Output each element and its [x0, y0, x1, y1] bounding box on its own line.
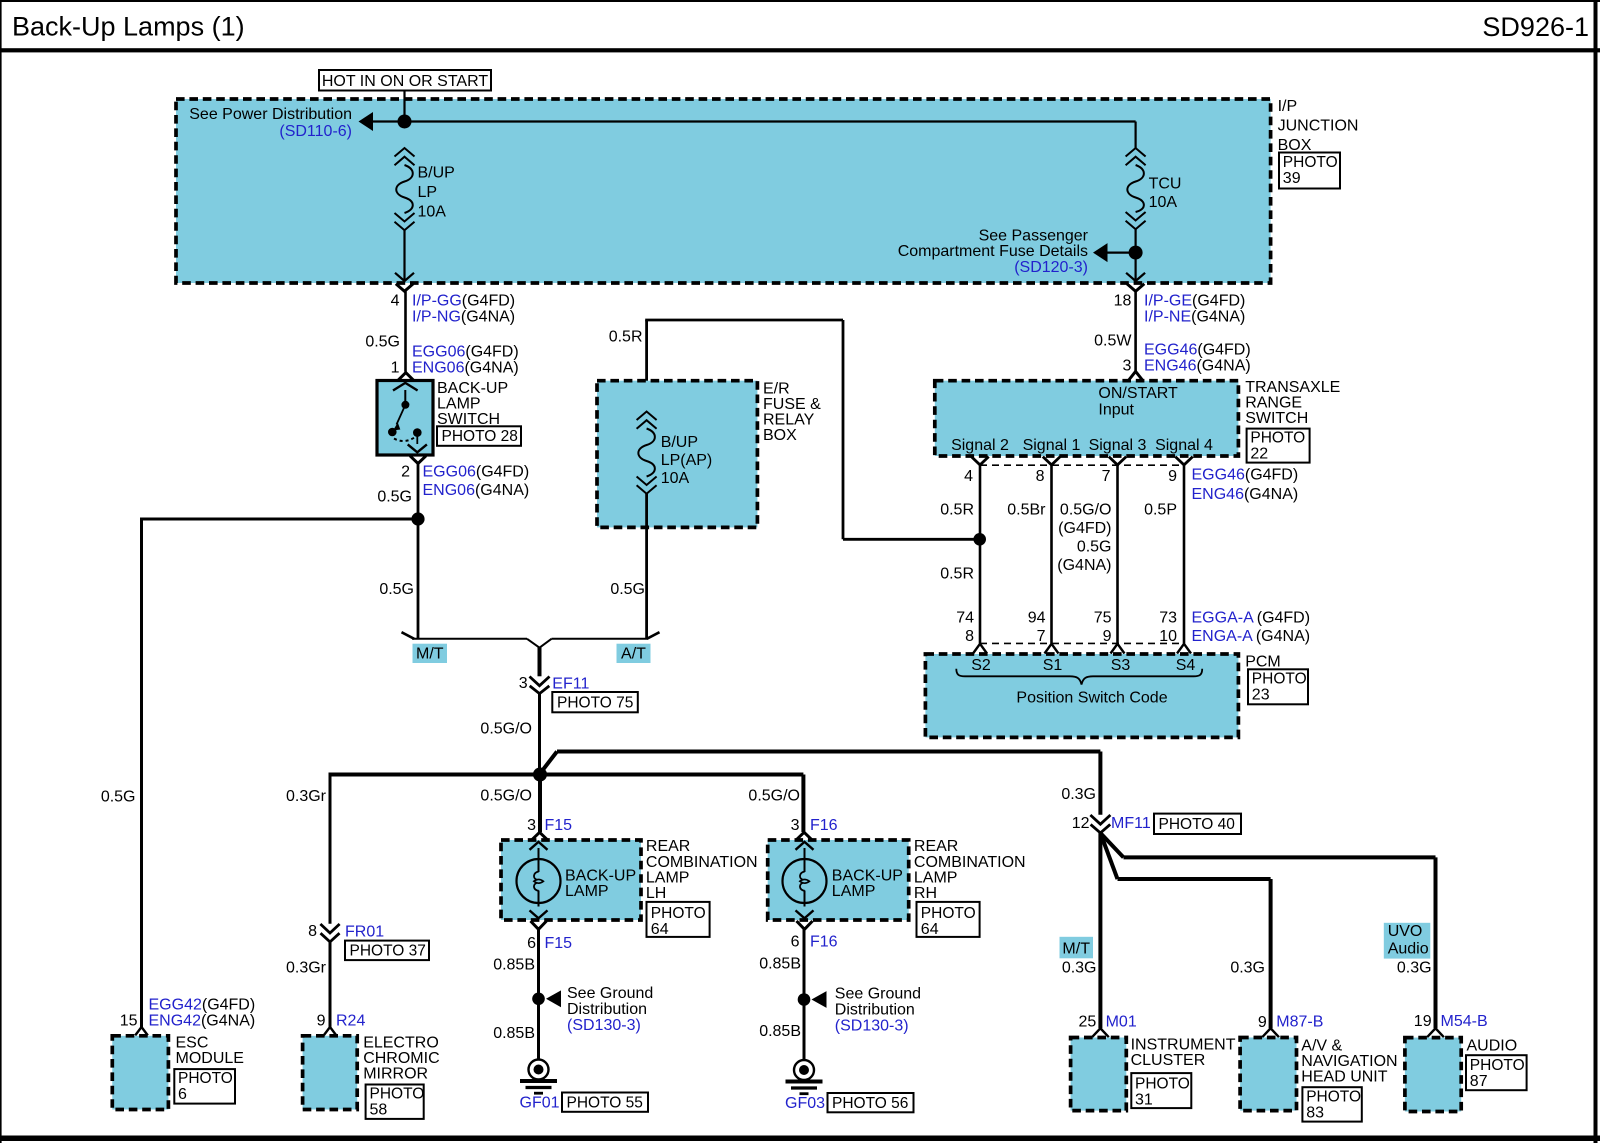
- wire: bus to A/V corner: [1118, 877, 1271, 881]
- pin 9 / connector name M87-B: [1258, 1014, 1324, 1032]
- svg-text:0.5G: 0.5G: [1077, 539, 1112, 556]
- photo ref box: PHOTO 87: [1466, 1055, 1527, 1090]
- svg-text:BACK-UP: BACK-UP: [565, 868, 636, 885]
- wire: diagonal to audio bus: [1100, 833, 1123, 857]
- svg-text:1: 1: [391, 360, 400, 377]
- svg-text:AUDIO: AUDIO: [1467, 1038, 1518, 1055]
- rear combination lamp RH box: [768, 840, 909, 920]
- svg-text:BOX: BOX: [1278, 137, 1312, 154]
- pin 15 / wire labels EGG42 ENG42: [120, 997, 256, 1030]
- svg-text:EF11: EF11: [552, 675, 589, 692]
- svg-text:I/P-GE(G4FD): I/P-GE(G4FD): [1144, 292, 1245, 309]
- svg-text:87: 87: [1470, 1073, 1488, 1090]
- svg-text:PHOTO 28: PHOTO 28: [442, 428, 518, 445]
- svg-text:LAMP: LAMP: [437, 396, 481, 413]
- svg-text:10A: 10A: [661, 470, 690, 487]
- svg-text:F16: F16: [810, 817, 838, 834]
- photo ref box: PHOTO 83: [1302, 1087, 1361, 1121]
- svg-text:EGG46(G4FD): EGG46(G4FD): [1144, 342, 1251, 359]
- svg-text:PCM: PCM: [1245, 654, 1281, 671]
- svg-text:M01: M01: [1106, 1014, 1137, 1031]
- photo ref box: PHOTO 28: [437, 426, 521, 446]
- connector fork into instrument cluster: [1092, 1028, 1109, 1037]
- pin 19 / connector name M54-B: [1414, 1013, 1488, 1030]
- svg-text:LP: LP: [418, 184, 438, 201]
- photo ref box: PHOTO 64 (RH): [917, 902, 980, 938]
- svg-text:3: 3: [1122, 358, 1131, 375]
- svg-text:SWITCH: SWITCH: [1245, 410, 1308, 427]
- pin 1 / wire labels EGG06 ENG06: [391, 344, 519, 377]
- svg-text:23: 23: [1252, 687, 1270, 704]
- connector fork into electro chromic mirror: [324, 1027, 337, 1035]
- svg-text:94: 94: [1028, 610, 1046, 627]
- svg-text:ENG46(G4NA): ENG46(G4NA): [1192, 486, 1299, 503]
- arrow: see ground distribution RH (points left): [812, 991, 827, 1008]
- svg-text:Back-Up Lamps (1): Back-Up Lamps (1): [12, 12, 245, 42]
- svg-text:0.5G/O: 0.5G/O: [1060, 502, 1112, 519]
- svg-text:Signal 1: Signal 1: [1023, 437, 1081, 454]
- svg-text:A/V &: A/V &: [1301, 1038, 1342, 1055]
- svg-text:0.5R: 0.5R: [609, 329, 643, 346]
- svg-text:I/P-NG(G4NA): I/P-NG(G4NA): [412, 309, 515, 326]
- wire labels EGGA-A ENGA-A: [1192, 610, 1311, 646]
- wire: I/P box to back-up lamp switch: [404, 291, 407, 372]
- wire: MF11 to instrument cluster: [1098, 833, 1102, 1028]
- svg-text:Distribution: Distribution: [835, 1002, 915, 1019]
- note: See Ground Distribution (SD130-3) RH: [835, 986, 921, 1035]
- svg-text:Signal 4: Signal 4: [1155, 437, 1213, 454]
- svg-text:Input: Input: [1098, 402, 1134, 419]
- svg-text:0.5G/O: 0.5G/O: [480, 788, 532, 805]
- svg-text:4: 4: [964, 468, 973, 485]
- svg-text:0.5G/O: 0.5G/O: [748, 788, 800, 805]
- junction dot: B+ feed node: [398, 115, 412, 129]
- svg-text:LP(AP): LP(AP): [661, 452, 713, 469]
- svg-text:0.85B: 0.85B: [759, 1023, 801, 1040]
- back-up lamp RH (bulb symbol): [783, 842, 827, 918]
- svg-text:PHOTO 37: PHOTO 37: [350, 943, 426, 960]
- svg-text:See Ground: See Ground: [567, 985, 653, 1002]
- svg-text:REAR: REAR: [646, 838, 690, 855]
- value label: B/UP LP(AP) 10A: [661, 434, 713, 487]
- svg-text:7: 7: [1102, 468, 1111, 485]
- inline connector EF11 pin 3: [530, 677, 550, 694]
- svg-text:ENG42(G4NA): ENG42(G4NA): [149, 1013, 256, 1030]
- svg-text:0.5G/O: 0.5G/O: [480, 721, 532, 738]
- pin 3 / connector name F16: [791, 817, 838, 834]
- value label: TCU 10A: [1149, 176, 1182, 212]
- svg-text:(SD130-3): (SD130-3): [835, 1018, 909, 1035]
- I/P junction box (fuse box): [176, 99, 1271, 283]
- svg-text:75: 75: [1094, 610, 1112, 627]
- svg-text:(SD120-3): (SD120-3): [1014, 259, 1088, 276]
- note: See Ground Distribution (SD130-3) LH: [567, 985, 653, 1034]
- value label: B/UP LP 10A: [418, 165, 455, 221]
- svg-text:64: 64: [651, 921, 669, 938]
- label: Signal 2 Signal 1 Signal 3 Signal 4: [951, 437, 1213, 454]
- pin 6 / connector name F16: [791, 934, 838, 951]
- svg-text:3: 3: [527, 817, 536, 834]
- node: HOT IN ON OR START: [319, 70, 491, 91]
- svg-text:PHOTO: PHOTO: [1252, 671, 1307, 688]
- svg-text:E/R: E/R: [763, 380, 790, 397]
- svg-text:FUSE &: FUSE &: [763, 396, 821, 413]
- svg-text:Compartment Fuse Details: Compartment Fuse Details: [898, 243, 1088, 260]
- arrow: see power distribution (points left): [359, 112, 374, 131]
- svg-text:I/P: I/P: [1278, 98, 1298, 115]
- svg-text:PHOTO 56: PHOTO 56: [832, 1095, 908, 1112]
- E/R fuse and relay box: [597, 381, 757, 528]
- svg-text:M/T: M/T: [416, 645, 444, 662]
- svg-text:M54-B: M54-B: [1441, 1013, 1488, 1030]
- wire: E/R feed horizontal to transaxle branch: [645, 319, 843, 322]
- svg-text:ENGA-A(G4NA): ENGA-A(G4NA): [1192, 628, 1311, 645]
- svg-text:0.3Gr: 0.3Gr: [286, 788, 327, 805]
- wire: vertical down to signal 2 node: [842, 320, 845, 539]
- svg-text:10A: 10A: [1149, 194, 1178, 211]
- pin 3 / connector name EF11: [519, 675, 590, 692]
- svg-text:B/UP: B/UP: [661, 434, 698, 451]
- svg-text:ENG06(G4NA): ENG06(G4NA): [412, 360, 519, 377]
- svg-text:CLUSTER: CLUSTER: [1131, 1052, 1206, 1069]
- connector half above rear combination lamp LH: [532, 832, 548, 840]
- svg-text:6: 6: [527, 935, 536, 952]
- label: E/R FUSE & RELAY BOX: [763, 380, 821, 444]
- A/V and navigation head unit box: [1240, 1038, 1296, 1111]
- svg-text:0.5G: 0.5G: [610, 581, 645, 598]
- svg-text:10A: 10A: [418, 204, 447, 221]
- pin 8 / connector name FR01: [308, 923, 384, 941]
- pin numbers 74/8 94/7 75/9 73/10: [956, 610, 1177, 646]
- svg-text:PHOTO: PHOTO: [1250, 430, 1305, 447]
- photo ref box: PHOTO 6: [174, 1069, 235, 1104]
- svg-text:PHOTO 55: PHOTO 55: [567, 1094, 643, 1111]
- wire: lamp LH to ground GF01: [537, 929, 540, 1060]
- option tag: M/T: [413, 644, 448, 663]
- label: BACK-UP LAMP (LH): [565, 868, 636, 901]
- svg-text:NAVIGATION: NAVIGATION: [1301, 1053, 1397, 1070]
- svg-text:Audio: Audio: [1388, 940, 1429, 957]
- option tag: M/T (instrument cluster): [1060, 937, 1094, 959]
- svg-text:SD926-1: SD926-1: [1482, 12, 1589, 42]
- svg-text:GF03: GF03: [785, 1095, 825, 1112]
- svg-text:(G4FD): (G4FD): [1058, 520, 1111, 537]
- junction dot: LH ground note node: [532, 993, 545, 1006]
- label: ELECTRO CHROMIC MIRROR: [363, 1034, 439, 1082]
- wire labels EGG46 ENG46: [1192, 467, 1299, 504]
- svg-text:18: 18: [1114, 292, 1132, 309]
- M/T - A/T merge symbol: [402, 632, 660, 648]
- pin 18 / wire labels I/P-GE I/P-NE: [1114, 292, 1246, 325]
- svg-text:EGGA-A(G4FD): EGGA-A(G4FD): [1192, 610, 1311, 627]
- svg-text:0.5W: 0.5W: [1094, 333, 1132, 350]
- svg-text:0.5G: 0.5G: [101, 789, 136, 806]
- junction dot: distribution node: [533, 768, 547, 782]
- wire: merge to EF11 connector: [538, 647, 542, 676]
- wire: switch to M/T merge: [417, 464, 420, 640]
- rear combination lamp LH box: [501, 840, 641, 920]
- connector half above rear combination lamp RH: [796, 832, 812, 840]
- svg-text:3: 3: [791, 817, 800, 834]
- svg-text:0.85B: 0.85B: [493, 1025, 535, 1042]
- svg-text:9: 9: [1103, 628, 1112, 645]
- pin 6 / connector name F15: [527, 935, 572, 952]
- connector half below rear combination lamp RH: [797, 921, 813, 929]
- svg-text:22: 22: [1250, 446, 1268, 463]
- svg-text:TCU: TCU: [1149, 176, 1182, 193]
- svg-text:EGG46(G4FD): EGG46(G4FD): [1192, 467, 1299, 484]
- svg-text:83: 83: [1306, 1105, 1324, 1122]
- PCM box: [925, 654, 1238, 737]
- svg-text:39: 39: [1283, 170, 1301, 187]
- inline connector FR01 pin 8: [320, 924, 339, 942]
- pin 3 / connector name F15: [527, 817, 572, 834]
- svg-text:ESC: ESC: [176, 1034, 209, 1051]
- wire labels: 0.5R 0.5Br 0.5G/O (G4FD) 0.5G (G4NA) 0.5P: [940, 502, 1177, 575]
- svg-text:RELAY: RELAY: [763, 411, 815, 428]
- svg-text:25: 25: [1079, 1014, 1097, 1031]
- svg-text:4: 4: [391, 292, 400, 309]
- connector half below rear combination lamp LH: [531, 921, 547, 929]
- title separator line: [0, 48, 1600, 52]
- photo ref box: PHOTO 22: [1247, 429, 1310, 463]
- photo ref box: PHOTO 40: [1154, 814, 1241, 834]
- svg-text:BACK-UP: BACK-UP: [437, 380, 508, 397]
- arrow: see ground distribution LH (points left): [546, 990, 561, 1007]
- wire: down to TCU fuse: [1134, 122, 1136, 149]
- wire: horizontal into signal 2 junction dot: [843, 538, 980, 541]
- wire: bus to audio corner: [1124, 855, 1436, 859]
- svg-text:64: 64: [921, 921, 939, 938]
- svg-text:F15: F15: [545, 817, 573, 834]
- svg-text:HOT IN ON OR START: HOT IN ON OR START: [322, 73, 488, 90]
- wire: signal 4: [1183, 465, 1186, 644]
- fuse B/UP LP(AP) 10A: [637, 412, 657, 494]
- pin 25 / connector name M01: [1079, 1014, 1137, 1031]
- connector half (female) below I/P box pin 18: [1127, 284, 1144, 292]
- wire: distribution node down to F15: [538, 775, 542, 833]
- arrowhead at I/P box exit (right): [1126, 273, 1145, 281]
- pin 3 / wire labels EGG46 ENG46: [1122, 342, 1250, 375]
- svg-text:Position Switch Code: Position Switch Code: [1016, 690, 1167, 707]
- pin 12 / connector name MF11: [1072, 815, 1151, 832]
- svg-text:A/T: A/T: [621, 645, 646, 662]
- svg-text:F15: F15: [545, 935, 573, 952]
- svg-text:0.5G: 0.5G: [377, 489, 412, 506]
- connector half below switch pin 2: [410, 456, 426, 464]
- svg-text:0.85B: 0.85B: [493, 957, 535, 974]
- back-up lamp LH (bulb symbol): [517, 842, 561, 918]
- pin 2 / wire labels EGG06 ENG06: [401, 464, 529, 500]
- connector half above switch pin 1: [398, 373, 414, 381]
- svg-text:(SD130-3): (SD130-3): [567, 1017, 641, 1034]
- svg-text:9: 9: [317, 1013, 326, 1030]
- label: REAR COMBINATION LAMP RH: [914, 838, 1026, 902]
- wire: signal 2: [979, 465, 982, 644]
- svg-text:PHOTO: PHOTO: [370, 1086, 425, 1103]
- svg-text:6: 6: [791, 934, 800, 951]
- svg-text:15: 15: [120, 1013, 138, 1030]
- svg-text:I/P-NE(G4NA): I/P-NE(G4NA): [1144, 309, 1245, 326]
- wire: arrow to TCU junction dot: [1108, 252, 1136, 254]
- svg-text:RH: RH: [914, 885, 937, 902]
- connector forks into PCM (S2 S1 S3 S4): [973, 644, 1191, 654]
- svg-text:31: 31: [1135, 1091, 1153, 1108]
- svg-text:COMBINATION: COMBINATION: [914, 854, 1026, 871]
- label: ESC MODULE: [176, 1034, 244, 1067]
- svg-text:0.5R: 0.5R: [940, 502, 974, 519]
- svg-text:S1: S1: [1043, 657, 1063, 674]
- junction dot: RH ground note node: [798, 993, 811, 1006]
- svg-text:9: 9: [1258, 1014, 1267, 1031]
- arrowhead at I/P box exit (left): [395, 273, 414, 281]
- label: BACK-UP LAMP SWITCH: [437, 380, 508, 428]
- svg-text:8: 8: [308, 923, 317, 940]
- photo ref box: PHOTO 75: [552, 692, 638, 712]
- svg-text:LAMP: LAMP: [646, 869, 690, 886]
- svg-text:0.3G: 0.3G: [1230, 959, 1265, 976]
- svg-text:REAR: REAR: [914, 838, 958, 855]
- photo ref box: PHOTO 64 (LH): [647, 902, 710, 938]
- fuse B/UP LP 10A: [395, 148, 415, 230]
- svg-text:8: 8: [1036, 468, 1045, 485]
- svg-text:EGG42(G4FD): EGG42(G4FD): [149, 997, 256, 1014]
- svg-text:COMBINATION: COMBINATION: [646, 854, 758, 871]
- wire: bus corner down to F16: [801, 775, 805, 833]
- inline connector MF11 pin 12: [1090, 815, 1110, 833]
- fuse TCU 10A: [1126, 148, 1146, 229]
- connector halves below transaxle range switch (S2 S1 S3 S4): [971, 457, 1192, 465]
- junction dot: TCU fuse node: [1129, 246, 1143, 260]
- svg-text:EGG06(G4FD): EGG06(G4FD): [423, 464, 530, 481]
- svg-text:HEAD UNIT: HEAD UNIT: [1301, 1069, 1387, 1086]
- svg-text:12: 12: [1072, 815, 1090, 832]
- svg-text:ENG06(G4NA): ENG06(G4NA): [423, 482, 530, 499]
- label: TRANSAXLE RANGE SWITCH: [1245, 379, 1340, 427]
- connector dashed link line (top): [980, 464, 1184, 466]
- wire: branch down to FR01: [329, 773, 332, 924]
- wire: fuse B/UP LP to I/P box exit: [403, 230, 405, 281]
- wire: bus corner down to MF11: [1098, 752, 1102, 815]
- note: See Passenger Compartment Fuse Details (SD120-3): [898, 228, 1089, 277]
- svg-text:S3: S3: [1111, 657, 1131, 674]
- svg-text:0.3Gr: 0.3Gr: [286, 960, 327, 977]
- label: INSTRUMENT CLUSTER: [1131, 1036, 1236, 1069]
- svg-text:EGG06(G4FD): EGG06(G4FD): [412, 344, 519, 361]
- photo ref box: PHOTO 58: [366, 1085, 425, 1119]
- note: See Power Distribution (SD110-6): [189, 106, 352, 140]
- svg-text:M/T: M/T: [1062, 940, 1090, 957]
- wire: arrow to junction dot: [373, 120, 405, 122]
- connector fork into audio: [1427, 1028, 1444, 1037]
- wire: distribution bus left (to FR01 branch): [330, 773, 540, 777]
- ground symbol GF03: [786, 1060, 823, 1094]
- wire: E/R fuse to A/T merge: [645, 494, 648, 640]
- audio box: [1405, 1038, 1461, 1112]
- wire: signal 3: [1116, 465, 1119, 644]
- wire: transaxle feed below I/P box: [1134, 291, 1137, 371]
- wire: corner down to A/V head unit: [1269, 879, 1273, 1028]
- svg-text:INSTRUMENT: INSTRUMENT: [1131, 1036, 1236, 1053]
- svg-text:PHOTO: PHOTO: [651, 905, 706, 922]
- svg-text:TRANSAXLE: TRANSAXLE: [1245, 379, 1340, 396]
- svg-text:JUNCTION: JUNCTION: [1278, 117, 1359, 134]
- junction dot: signal 2 node: [973, 533, 986, 546]
- svg-text:(G4NA): (G4NA): [1057, 557, 1111, 574]
- svg-text:2: 2: [401, 464, 410, 481]
- svg-text:0.3G: 0.3G: [1061, 786, 1096, 803]
- connector dashed link line (bottom): [980, 642, 1184, 644]
- svg-text:3: 3: [519, 675, 528, 692]
- arrow: see passenger compartment fuse details (points left): [1093, 243, 1108, 262]
- ESC module box: [112, 1036, 168, 1110]
- svg-text:PHOTO 40: PHOTO 40: [1159, 816, 1236, 833]
- wire: branch to ESC module (vertical): [140, 518, 143, 1028]
- svg-text:PHOTO: PHOTO: [1470, 1057, 1525, 1074]
- svg-text:(SD110-6): (SD110-6): [279, 123, 352, 140]
- wire: main feed across I/P box: [405, 120, 1136, 122]
- pin 9 / connector name R24: [317, 1013, 366, 1030]
- back-up lamp switch: [377, 381, 433, 456]
- pin numbers 4 8 7 9: [964, 468, 1177, 485]
- label: REAR COMBINATION LAMP LH: [646, 838, 758, 902]
- svg-text:UVO: UVO: [1388, 923, 1423, 940]
- wire: HOT IN ON OR START to junction dot: [403, 91, 405, 122]
- wire: TCU fuse to I/P box exit: [1134, 229, 1136, 281]
- instrument cluster box: [1071, 1038, 1127, 1111]
- option tag: A/T: [617, 644, 651, 663]
- svg-text:0.5Br: 0.5Br: [1007, 502, 1046, 519]
- svg-text:FR01: FR01: [345, 924, 384, 941]
- wire: distribution bus right (to F16 branch): [540, 773, 803, 777]
- svg-text:PHOTO 75: PHOTO 75: [557, 695, 633, 712]
- svg-text:74: 74: [956, 610, 974, 627]
- wire: EF11 to distribution node: [538, 694, 541, 775]
- svg-text:BOX: BOX: [763, 427, 797, 444]
- svg-text:B/UP: B/UP: [418, 165, 455, 182]
- svg-text:0.3G: 0.3G: [1062, 959, 1097, 976]
- svg-text:0.5R: 0.5R: [940, 566, 974, 583]
- wire: E/R feed corner (vertical above E/R box): [645, 320, 648, 412]
- svg-text:PHOTO: PHOTO: [1306, 1089, 1361, 1106]
- svg-text:9: 9: [1168, 468, 1177, 485]
- label: BACK-UP LAMP (RH): [832, 868, 903, 901]
- svg-text:ENG46(G4NA): ENG46(G4NA): [1144, 358, 1251, 375]
- svg-text:0.5P: 0.5P: [1144, 502, 1177, 519]
- photo ref box: PHOTO 37: [345, 941, 429, 961]
- connector fork into ESC module: [135, 1027, 148, 1035]
- svg-text:I/P-GG(G4FD): I/P-GG(G4FD): [412, 292, 515, 309]
- photo ref box: PHOTO 56: [828, 1093, 914, 1112]
- svg-text:LH: LH: [646, 885, 666, 902]
- photo ref box: PHOTO 31: [1131, 1073, 1191, 1108]
- svg-text:LAMP: LAMP: [832, 883, 876, 900]
- svg-text:CHROMIC: CHROMIC: [363, 1050, 439, 1067]
- svg-text:6: 6: [178, 1086, 187, 1103]
- photo ref box: PHOTO 55: [562, 1093, 648, 1112]
- svg-text:MF11: MF11: [1111, 815, 1151, 832]
- svg-text:S4: S4: [1176, 657, 1196, 674]
- svg-text:PHOTO: PHOTO: [1135, 1075, 1190, 1092]
- svg-text:BACK-UP: BACK-UP: [832, 868, 903, 885]
- svg-text:RANGE: RANGE: [1245, 395, 1302, 412]
- junction dot: 0.5G branch node: [411, 512, 424, 525]
- svg-text:S2: S2: [971, 657, 991, 674]
- wire: lamp RH to ground GF03: [803, 929, 806, 1061]
- connector half above transaxle range switch: [1128, 371, 1143, 381]
- svg-text:LAMP: LAMP: [565, 883, 609, 900]
- svg-text:F16: F16: [810, 934, 838, 951]
